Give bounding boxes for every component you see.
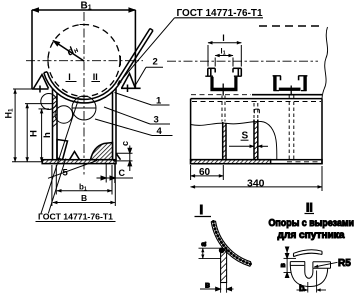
svg-text:1: 1 <box>156 96 162 107</box>
svg-text:h: h <box>42 132 53 138</box>
svg-text:2: 2 <box>153 57 158 68</box>
svg-text:S: S <box>242 131 249 142</box>
svg-text:60: 60 <box>199 167 211 178</box>
svg-text:3: 3 <box>154 115 159 126</box>
svg-text:I: I <box>200 202 204 217</box>
svg-text:ГОСТ 14771-76-Т1: ГОСТ 14771-76-Т1 <box>177 8 263 19</box>
svg-text:340: 340 <box>247 177 265 189</box>
svg-text:Опоры с вырезами: Опоры с вырезами <box>269 218 355 229</box>
svg-text:5: 5 <box>63 168 69 179</box>
svg-text:Н: Н <box>28 130 39 137</box>
svg-text:В: В <box>81 193 87 203</box>
svg-text:в: в <box>205 281 210 290</box>
svg-text:для спутника: для спутника <box>278 230 346 241</box>
svg-text:в: в <box>280 263 287 268</box>
svg-text:С: С <box>119 168 126 178</box>
svg-text:II: II <box>93 72 98 82</box>
svg-text:l: l <box>222 33 225 43</box>
svg-text:а: а <box>199 242 208 247</box>
svg-text:ГОСТ 14771-76-Т1: ГОСТ 14771-76-Т1 <box>38 213 113 222</box>
svg-text:I: I <box>68 72 71 82</box>
svg-text:с: с <box>120 141 130 146</box>
svg-text:4: 4 <box>157 126 163 137</box>
svg-text:R5: R5 <box>338 258 351 269</box>
svg-text:II: II <box>306 201 313 215</box>
svg-text:b: b <box>299 283 305 293</box>
